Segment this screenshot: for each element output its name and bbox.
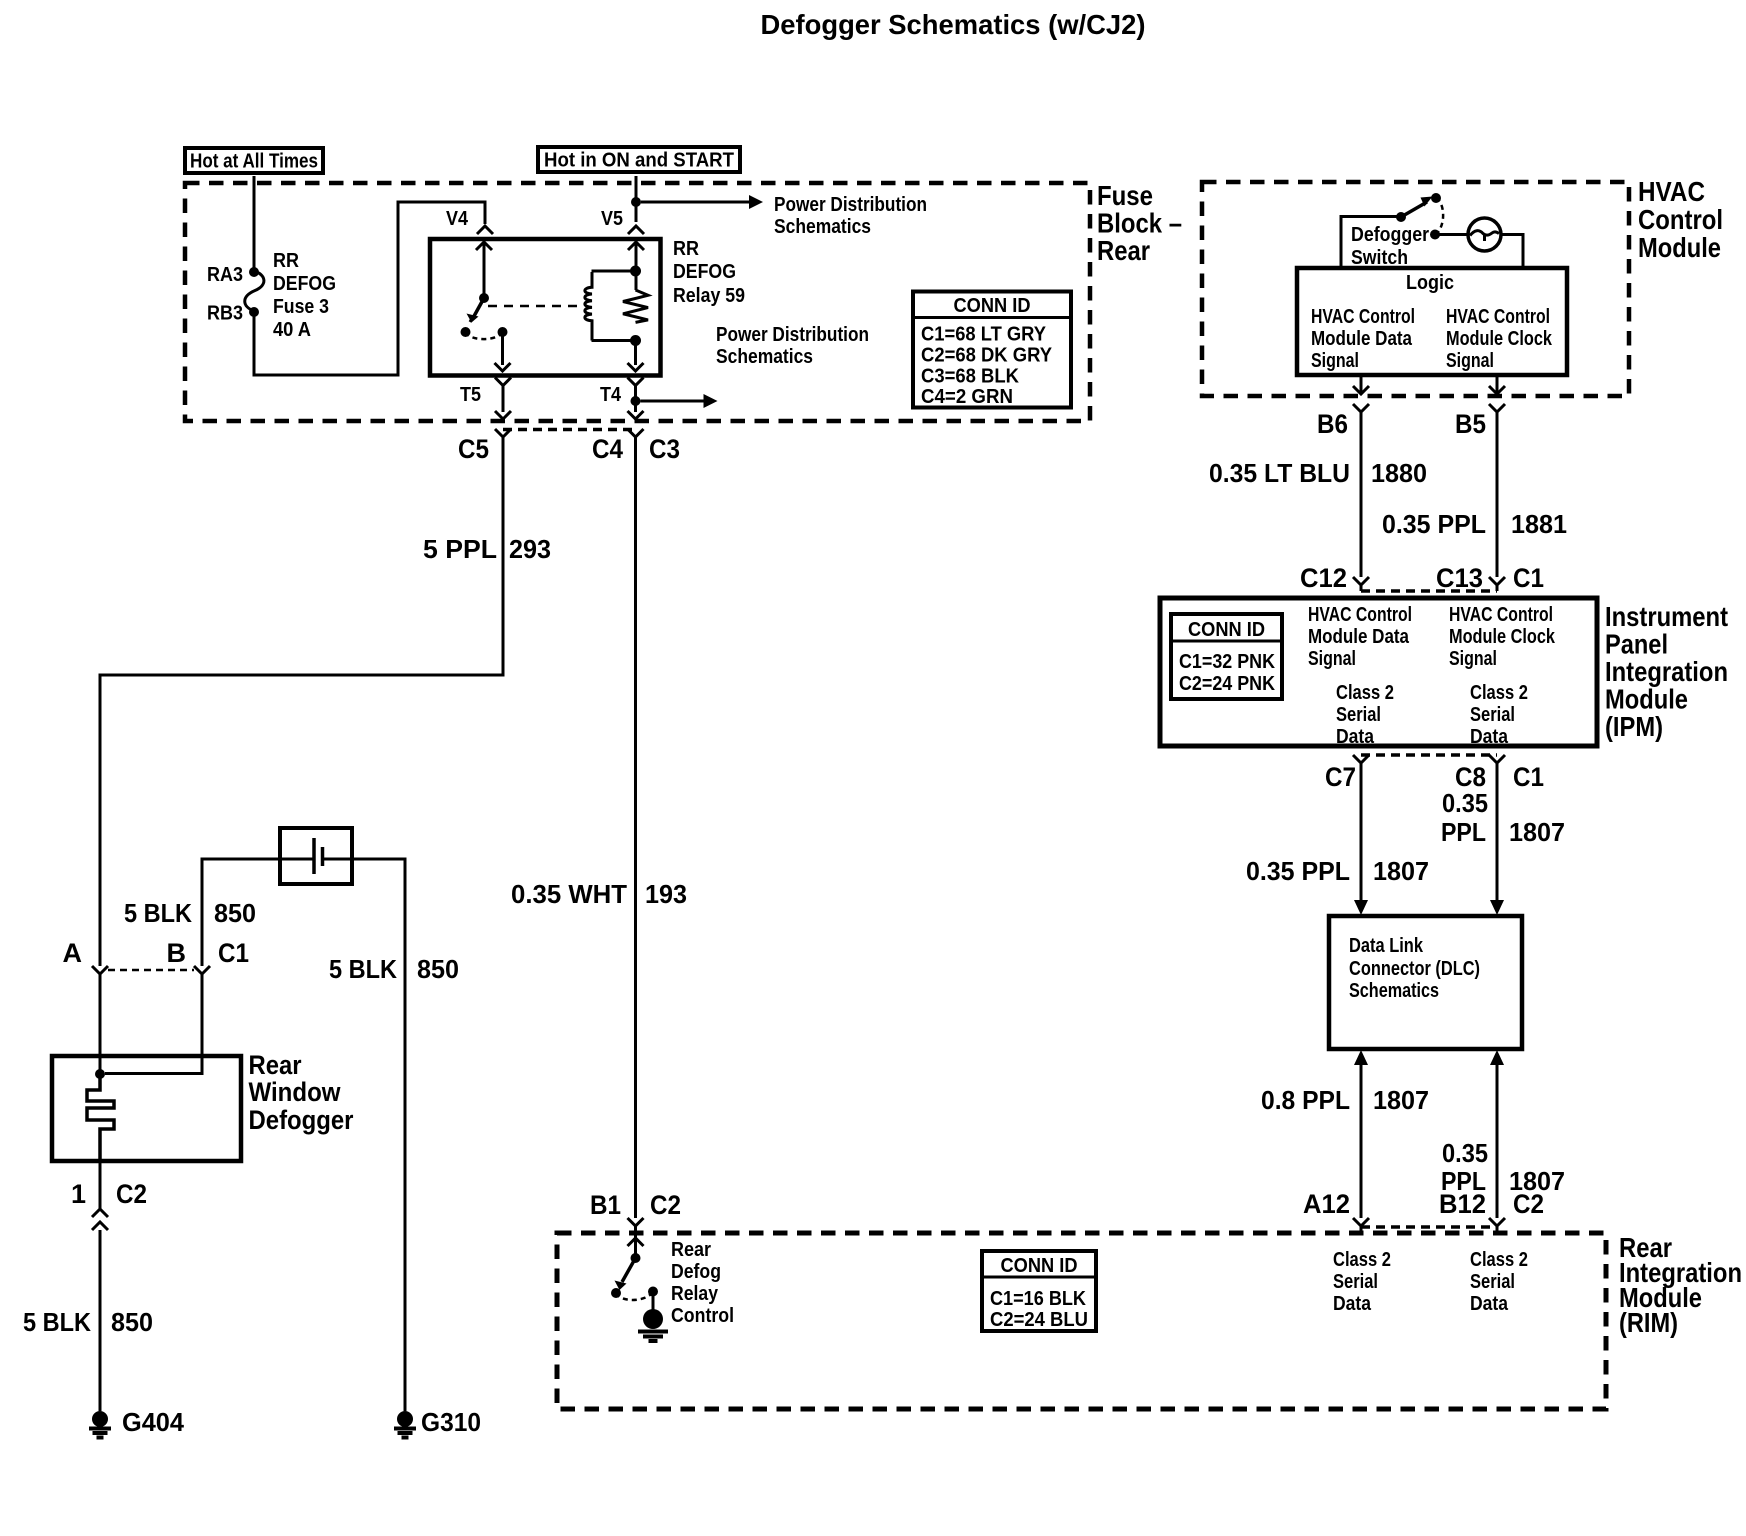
module label: Fuse Block - Rear [1097, 180, 1182, 266]
svg-text:CONN ID: CONN ID [1001, 1255, 1078, 1277]
svg-text:0.8 PPL: 0.8 PPL [1261, 1085, 1350, 1115]
svg-text:C2: C2 [650, 1190, 681, 1220]
svg-text:Module: Module [1638, 232, 1721, 263]
wire: suppressor to C1 drop [202, 859, 280, 966]
svg-text:Connector (DLC): Connector (DLC) [1349, 958, 1480, 980]
svg-text:1807: 1807 [1509, 817, 1565, 847]
svg-text:C3: C3 [649, 434, 680, 464]
svg-text:Control: Control [671, 1305, 734, 1327]
svg-text:Hot at All Times: Hot at All Times [190, 151, 318, 173]
wire arrow: RIM B12 up to DLC (0.35 PPL 1807) [1496, 1063, 1499, 1218]
svg-text:C1=32 PNK: C1=32 PNK [1179, 651, 1275, 673]
svg-text:Logic: Logic [1406, 272, 1454, 294]
indicator lamp (defogger on indicator) [1468, 218, 1501, 251]
switch label: Rear Defog Relay Control [671, 1239, 734, 1327]
svg-text:HVAC Control: HVAC Control [1308, 604, 1412, 626]
relay K: RR DEFOG Relay 59 box [430, 239, 661, 376]
svg-text:DEFOG: DEFOG [273, 273, 336, 295]
wire: C5 to rear window defogger (5 PPL 293) [100, 443, 503, 966]
wire: C3 to RIM B1 (0.35 WHT 193) [634, 443, 637, 1218]
svg-text:V4: V4 [446, 208, 469, 230]
wire: resistor bottom to terminal T4 [634, 341, 637, 366]
connector link dashed C12-C13 [1361, 589, 1497, 593]
relay switch arm input arrow (from V4) [483, 242, 486, 298]
svg-text:1: 1 [71, 1179, 86, 1209]
svg-text:Module: Module [1605, 684, 1688, 715]
module label: HVAC Control Module [1638, 176, 1723, 263]
label: HVAC Control Module Data Signal (HVAC) [1311, 306, 1415, 372]
svg-text:Defogger Schematics (w/CJ2): Defogger Schematics (w/CJ2) [761, 9, 1146, 40]
value label: RR DEFOG Fuse 3 40 A [273, 250, 336, 341]
svg-text:C12: C12 [1300, 563, 1347, 593]
svg-text:Defogger: Defogger [249, 1105, 354, 1135]
svg-text:Data: Data [1470, 726, 1509, 748]
connector fork B1 [628, 1218, 644, 1232]
connector fork C7 [1353, 755, 1369, 769]
svg-text:0.35 PPL: 0.35 PPL [1382, 509, 1486, 539]
svg-text:Defog: Defog [671, 1261, 721, 1283]
label: HVAC Control Module Clock Signal (HVAC) [1446, 306, 1553, 372]
svg-text:Class 2: Class 2 [1333, 1249, 1391, 1271]
svg-text:0.35: 0.35 [1442, 1138, 1488, 1168]
wire: fuse RB3 to relay terminal V4 [254, 202, 485, 375]
svg-text:Defogger: Defogger [1351, 224, 1429, 246]
node RB3 [249, 307, 259, 317]
wire: B6 to IPM C12 (0.35 LT BLU 1880) [1360, 418, 1363, 577]
note: Power Distribution Schematics (top) [774, 194, 927, 238]
terminal T4 fork [628, 378, 644, 392]
svg-text:40 A: 40 A [273, 319, 311, 341]
svg-text:C1=68 LT GRY: C1=68 LT GRY [921, 324, 1047, 346]
svg-text:Serial: Serial [1470, 1271, 1515, 1293]
svg-text:C2=68 DK GRY: C2=68 DK GRY [921, 345, 1053, 367]
connector link dashed A-B [108, 969, 194, 972]
svg-text:C2: C2 [116, 1179, 147, 1209]
wire: T4 to fuse block edge [634, 391, 637, 412]
relay coil [585, 272, 592, 341]
svg-text:Schematics: Schematics [774, 216, 871, 238]
svg-text:Schematics: Schematics [1349, 980, 1439, 1002]
svg-text:RA3: RA3 [207, 264, 243, 286]
svg-text:Serial: Serial [1333, 1271, 1378, 1293]
svg-text:RB3: RB3 [207, 303, 243, 325]
svg-text:Signal: Signal [1308, 648, 1356, 670]
defogger switch throw node [1431, 193, 1441, 203]
svg-text:G404: G404 [122, 1407, 185, 1437]
RIM switch pivot node [631, 1253, 641, 1263]
connector fork C13 [1489, 577, 1505, 591]
svg-text:HVAC Control: HVAC Control [1311, 306, 1415, 328]
connector link dashed C5-C4 [503, 428, 636, 432]
relay switch contact node A [461, 327, 471, 337]
terminal T5 fork [495, 378, 511, 392]
svg-text:850: 850 [111, 1307, 153, 1337]
svg-text:Power Distribution: Power Distribution [716, 324, 869, 346]
svg-text:Signal: Signal [1449, 648, 1497, 670]
conn table: RIM CONN ID [982, 1251, 1096, 1331]
label: HVAC Control Module Clock Signal (IPM) [1449, 604, 1556, 670]
svg-text:C4=2 GRN: C4=2 GRN [921, 386, 1013, 408]
svg-text:Schematics: Schematics [716, 346, 813, 368]
svg-text:Serial: Serial [1470, 704, 1515, 726]
svg-text:293: 293 [509, 534, 551, 564]
svg-text:Module Clock: Module Clock [1449, 626, 1556, 648]
svg-text:C2: C2 [1513, 1189, 1544, 1219]
svg-text:C1: C1 [218, 938, 249, 968]
wire arrow: C7 to DLC (0.35 PPL 1807) [1360, 769, 1363, 902]
svg-text:B5: B5 [1455, 409, 1486, 439]
junction: coil/resistor top [630, 266, 641, 277]
svg-text:HVAC Control: HVAC Control [1449, 604, 1553, 626]
feed box: Hot at All Times [185, 148, 323, 173]
svg-text:Power Distribution: Power Distribution [774, 194, 927, 216]
module label: Instrument Panel Integration Module (IPM) [1605, 601, 1728, 742]
svg-text:HVAC Control: HVAC Control [1446, 306, 1550, 328]
module box: Instrument Panel Integration Module (IPM) [1160, 598, 1597, 746]
wire: Hot in ON and START feed to relay terminal V5 [635, 176, 638, 222]
svg-text:RR: RR [673, 238, 699, 260]
svg-text:1880: 1880 [1371, 458, 1427, 488]
svg-text:0.35 WHT: 0.35 WHT [511, 879, 627, 909]
RIM switch contact node A [611, 1288, 621, 1298]
wire arrow: feed to Power Distribution Schematics [641, 201, 751, 204]
svg-text:5 BLK: 5 BLK [329, 954, 397, 984]
logic box [1297, 268, 1567, 375]
connector chevrons 1/C2 [92, 1209, 108, 1230]
svg-text:Panel: Panel [1605, 629, 1668, 660]
wire: indicator to logic [1501, 235, 1523, 269]
junction: T4 tap node [631, 396, 641, 406]
svg-text:B: B [167, 938, 187, 968]
wire: B5 to IPM C13 (0.35 PPL 1881) [1496, 418, 1499, 577]
wire: B1 into RIM relay control switch [634, 1233, 637, 1258]
svg-text:Class 2: Class 2 [1470, 1249, 1528, 1271]
module box: HVAC Control Module (dashed) [1202, 182, 1629, 396]
svg-text:Module Data: Module Data [1311, 328, 1413, 350]
svg-text:Data: Data [1336, 726, 1375, 748]
wire arrow: T4 tap to power distribution [641, 400, 706, 403]
svg-text:Rear: Rear [249, 1050, 302, 1080]
svg-text:Data: Data [1470, 1293, 1509, 1315]
connector fork A12 [1353, 1218, 1369, 1232]
svg-text:DEFOG: DEFOG [673, 261, 736, 283]
relay switch pivot node [479, 293, 489, 303]
wire arrow: C8 to DLC (0.35 PPL 1807) [1496, 769, 1499, 902]
wire: coil bottom to V5 line [592, 339, 636, 342]
svg-text:Module Data: Module Data [1308, 626, 1410, 648]
svg-text:Window: Window [249, 1077, 342, 1107]
svg-text:Rear: Rear [671, 1239, 711, 1261]
svg-text:A12: A12 [1303, 1189, 1350, 1219]
wire: V5 into relay [635, 242, 638, 290]
svg-text:1807: 1807 [1373, 1085, 1429, 1115]
svg-text:RR: RR [273, 250, 299, 272]
connector link dashed C7-C8 [1361, 753, 1497, 757]
ground G404 [92, 1411, 108, 1427]
relay actuation dashed link [488, 305, 577, 308]
svg-text:850: 850 [214, 898, 256, 928]
wire: suppressor to G310 drop [352, 859, 405, 1411]
svg-text:Control: Control [1638, 204, 1723, 235]
svg-text:Class 2: Class 2 [1336, 682, 1394, 704]
svg-text:C1: C1 [1513, 762, 1544, 792]
connector fork C8 [1489, 755, 1505, 769]
switch output contact node [1430, 230, 1440, 240]
wire: relay contact B to terminal T5 [501, 332, 504, 365]
svg-text:1807: 1807 [1373, 856, 1429, 886]
svg-text:Data: Data [1333, 1293, 1372, 1315]
svg-text:PPL: PPL [1441, 817, 1486, 847]
diode/cap feed box (noise suppressor) [280, 828, 352, 884]
svg-text:0.35 LT BLU: 0.35 LT BLU [1209, 458, 1350, 488]
wire: A into defogger [99, 974, 102, 1071]
junction: V5 feed node [631, 197, 641, 207]
RIM switch dashed throw arc [616, 1292, 653, 1300]
defogger switch dashed throw arc [1436, 198, 1443, 235]
svg-text:C2=24 BLU: C2=24 BLU [990, 1309, 1088, 1331]
svg-text:5 BLK: 5 BLK [124, 898, 192, 928]
node RA3 [249, 267, 259, 277]
relay switch dashed throw arc [466, 332, 503, 339]
terminal V5 chevron [628, 226, 644, 234]
ground (RIM internal) [638, 1309, 668, 1341]
ref box: Data Link Connector (DLC) Schematics [1329, 916, 1522, 1049]
conn table: fuse block CONN ID [913, 292, 1071, 409]
connector fork C5 [495, 429, 511, 443]
module label: Rear Integration Module (RIM) [1619, 1232, 1742, 1338]
wire arrow: RIM A12 up to DLC (0.8 PPL 1807) [1360, 1063, 1363, 1218]
svg-text:C5: C5 [458, 434, 489, 464]
wire: B/C1 into defogger [105, 974, 202, 1074]
svg-text:Switch: Switch [1351, 247, 1408, 269]
connector fork B12 [1489, 1218, 1505, 1232]
svg-text:193: 193 [645, 879, 687, 909]
relay suppression resistor [623, 290, 648, 322]
connector fork C4 [628, 429, 644, 443]
svg-text:T5: T5 [460, 384, 481, 406]
defogger heater element [87, 1074, 114, 1161]
relay switch contact node B (to T5) [498, 327, 508, 337]
module box: Fuse Block - Rear (dashed) [185, 183, 1090, 421]
fuse F3: RR DEFOG Fuse 3 40 A [245, 271, 264, 311]
svg-text:Instrument: Instrument [1605, 601, 1728, 632]
wire: defogger to pin 1 connector [99, 1161, 102, 1209]
label: HVAC Control Module Data Signal (IPM) [1308, 604, 1412, 670]
conn table: IPM CONN ID [1171, 614, 1282, 699]
module label: Rear Window Defogger [249, 1050, 354, 1135]
svg-text:(IPM): (IPM) [1605, 711, 1663, 742]
svg-text:Block –: Block – [1097, 208, 1182, 239]
ground G310 [397, 1411, 413, 1427]
svg-text:C2=24 PNK: C2=24 PNK [1179, 673, 1275, 695]
wire: coil top to V5 line [592, 270, 636, 273]
svg-text:Relay: Relay [671, 1283, 719, 1305]
RIM relay control switch arm [622, 1258, 636, 1282]
connector chevron A [92, 966, 108, 974]
connector fork C12 [1353, 577, 1369, 591]
svg-text:Data Link: Data Link [1349, 935, 1424, 957]
wire: defogger pin 1 to G404 (5 BLK 850) [99, 1230, 102, 1411]
svg-text:C7: C7 [1325, 762, 1356, 792]
svg-text:C3=68 BLK: C3=68 BLK [921, 366, 1020, 388]
defogger switch arm [1401, 202, 1427, 217]
svg-text:C13: C13 [1436, 563, 1483, 593]
svg-text:(RIM): (RIM) [1619, 1307, 1678, 1338]
wire: RIM switch to internal ground [652, 1292, 655, 1312]
svg-text:Fuse: Fuse [1097, 180, 1153, 211]
svg-text:5 PPL: 5 PPL [423, 534, 497, 564]
svg-text:A: A [63, 938, 83, 968]
label: Class 2 Serial Data (IPM left) [1336, 682, 1394, 748]
svg-text:Relay 59: Relay 59 [673, 285, 745, 307]
svg-text:CONN ID: CONN ID [954, 295, 1031, 317]
relay label: RR DEFOG Relay 59 [673, 238, 745, 307]
svg-text:T4: T4 [600, 384, 622, 406]
svg-text:B6: B6 [1317, 409, 1348, 439]
switch S: defogger switch pivot node [1396, 212, 1406, 222]
feed box: Hot in ON and START [538, 147, 740, 172]
wire: logic to defogger switch pivot [1341, 217, 1397, 269]
wire: HVAC clock signal out to B5 [1496, 375, 1499, 394]
junction: defogger element top [95, 1069, 105, 1079]
svg-text:Signal: Signal [1311, 350, 1359, 372]
svg-text:V5: V5 [601, 208, 623, 230]
svg-text:0.35: 0.35 [1442, 788, 1488, 818]
svg-text:CONN ID: CONN ID [1188, 619, 1265, 641]
module box: Rear Integration Module (RIM) (dashed) [557, 1233, 1606, 1409]
label: Class 2 Serial Data (IPM right) [1470, 682, 1528, 748]
svg-text:C1: C1 [1513, 563, 1544, 593]
svg-text:Signal: Signal [1446, 350, 1494, 372]
RIM switch contact node B [648, 1287, 658, 1297]
relay switch arm [473, 298, 484, 318]
wire: Hot at All Times feed to fuse RA3 [253, 176, 256, 268]
label: Class 2 Serial Data (RIM left) [1333, 1249, 1391, 1315]
svg-text:1881: 1881 [1511, 509, 1567, 539]
svg-text:Class 2: Class 2 [1470, 682, 1528, 704]
connector chevron B [194, 966, 210, 974]
svg-text:Hot in ON and START: Hot in ON and START [544, 150, 734, 172]
svg-text:0.35 PPL: 0.35 PPL [1246, 856, 1350, 886]
svg-text:C4: C4 [592, 434, 623, 464]
svg-text:Integration: Integration [1605, 656, 1728, 687]
svg-text:Rear: Rear [1097, 235, 1150, 266]
wire: T5 to fuse block edge [502, 391, 505, 412]
connector link dashed A12-B12 [1361, 1225, 1497, 1229]
terminal V4 chevron [477, 226, 493, 234]
svg-text:Fuse 3: Fuse 3 [273, 296, 329, 318]
svg-text:850: 850 [417, 954, 459, 984]
terminal B6 fork [1353, 404, 1369, 418]
svg-text:C1=16 BLK: C1=16 BLK [990, 1288, 1086, 1310]
svg-text:Module Clock: Module Clock [1446, 328, 1553, 350]
rear window defogger box [52, 1056, 241, 1161]
terminal B5 fork [1489, 404, 1505, 418]
svg-text:HVAC: HVAC [1638, 176, 1705, 207]
svg-text:B12: B12 [1439, 1189, 1486, 1219]
svg-text:5 BLK: 5 BLK [23, 1307, 91, 1337]
note: Power Distribution Schematics (relay) [716, 324, 869, 368]
junction: coil/resistor bottom [630, 335, 641, 346]
svg-text:G310: G310 [421, 1407, 481, 1437]
wire: switch contact to indicator [1435, 233, 1468, 236]
wire: HVAC data signal out to B6 [1360, 375, 1363, 394]
svg-text:Serial: Serial [1336, 704, 1381, 726]
switch label: Defogger Switch [1351, 224, 1429, 269]
label: Class 2 Serial Data (RIM right) [1470, 1249, 1528, 1315]
svg-text:B1: B1 [590, 1190, 621, 1220]
